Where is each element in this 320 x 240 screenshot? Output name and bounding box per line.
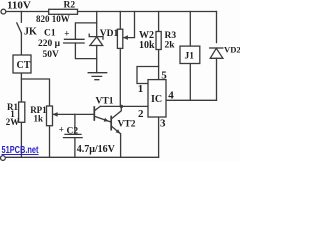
label 2k — [165, 40, 176, 50]
potentiometer W2 body — [117, 29, 122, 48]
terminal top-left — [1, 9, 6, 14]
label 10k — [139, 40, 155, 51]
wire J1 bottom lead — [189, 64, 191, 101]
diode VD2 — [210, 48, 223, 58]
label W2 — [139, 30, 154, 41]
label RP1 — [30, 105, 47, 115]
wire bottom rail — [5, 156, 158, 158]
wire W2 bottom to collector node — [119, 48, 121, 106]
svg-text:2k: 2k — [165, 40, 176, 50]
wire CT to bottom rail through R1 — [20, 73, 22, 157]
label 820 10W — [36, 14, 70, 24]
transistor VT2 emitter — [111, 126, 120, 134]
resistor R3 — [156, 32, 161, 50]
svg-text:50V: 50V — [43, 50, 60, 60]
label 220u — [38, 39, 61, 49]
arrow VT1 emitter — [104, 118, 109, 122]
resistor R1 — [19, 102, 25, 122]
transistor VT2 base bar — [110, 117, 112, 130]
label R2 — [64, 0, 76, 10]
svg-text:VT1: VT1 — [96, 97, 114, 107]
label IC — [151, 94, 162, 105]
label VD1 — [100, 29, 119, 39]
arrow W2 wiper — [123, 35, 128, 40]
zener diode VD1 — [89, 34, 103, 45]
svg-text:2W: 2W — [6, 117, 20, 127]
arrow VT2 emitter — [116, 129, 121, 133]
transistor VT1 base bar — [93, 107, 95, 120]
wire R3 top lead — [158, 12, 160, 32]
wire W2 top lead — [119, 12, 121, 30]
svg-text:820 10W: 820 10W — [36, 14, 70, 24]
label C1 — [44, 29, 56, 39]
wire C1 top lead — [75, 23, 96, 39]
label R1 value 2W — [6, 117, 20, 127]
label R1 — [7, 102, 18, 112]
svg-text:1: 1 — [138, 83, 144, 95]
switch JK blade — [17, 23, 22, 33]
svg-text:VD2: VD2 — [224, 44, 240, 54]
label C1 plus — [64, 28, 69, 38]
wire right drop to VD2 — [216, 12, 218, 43]
label pin 3 — [160, 117, 166, 129]
svg-text:220 μ: 220 μ — [38, 39, 61, 49]
svg-text:3: 3 — [160, 117, 166, 129]
wire pin1 to R3 net — [137, 67, 159, 84]
svg-text:4.7μ/16V: 4.7μ/16V — [77, 144, 116, 155]
wire C2 bottom lead — [74, 138, 76, 158]
label R3 — [165, 31, 177, 41]
label VT2 — [118, 120, 136, 130]
relay coil J1 box — [180, 46, 200, 63]
wire RP1 bottom lead — [49, 126, 51, 158]
svg-text:1k: 1k — [34, 114, 44, 124]
wire VD2 bottom to pin4 net — [216, 58, 218, 100]
current transformer CT box — [13, 55, 31, 73]
label J1 — [185, 52, 195, 62]
wire collector node to IC pin2 — [100, 105, 148, 107]
svg-text:10k: 10k — [139, 40, 155, 51]
label 110V — [7, 0, 31, 12]
wire C1 bottom lead — [75, 43, 96, 59]
capacitor C1 plates — [64, 39, 85, 43]
wire VT2 emitter to bottom rail — [120, 134, 122, 158]
wire left branch stub — [20, 12, 22, 23]
wire R3 bottom to IC pin5 — [158, 50, 160, 80]
svg-text:C1: C1 — [44, 29, 56, 39]
wire VD1 top lead — [96, 12, 98, 37]
label pin 1 — [138, 83, 144, 95]
svg-text:+: + — [59, 125, 64, 135]
wire IC pin3 to bottom rail — [158, 117, 160, 157]
wire W2 wiper to rail — [123, 12, 134, 38]
wire C2 top lead — [74, 114, 76, 134]
svg-text:51PCB.net: 51PCB.net — [2, 145, 39, 156]
wire jog to RP1 top — [21, 79, 49, 106]
svg-text:R2: R2 — [64, 0, 76, 10]
label VT1 — [96, 97, 114, 107]
svg-text:4: 4 — [168, 90, 174, 102]
wire J1 top lead — [189, 12, 191, 47]
label VD2 — [224, 44, 241, 54]
wire pin4 net horizontal — [166, 99, 217, 101]
svg-text:JK: JK — [24, 27, 37, 38]
svg-text:+: + — [64, 28, 69, 38]
wire RP1 wiper to VT1 base — [53, 113, 94, 115]
transistor VT1 collector — [94, 106, 100, 110]
svg-text:CT: CT — [17, 60, 31, 71]
svg-text:110V: 110V — [7, 0, 31, 12]
wire VD1 anode to ground — [96, 46, 98, 73]
resistor R2 — [49, 9, 78, 14]
transistor VT1 emitter — [94, 116, 110, 122]
transistor VT2 collector — [111, 106, 121, 119]
wire switch to CT — [20, 33, 22, 55]
arrow RP1 wiper — [53, 112, 58, 117]
label RP1 value 1k — [34, 114, 44, 124]
label pin 2 — [138, 108, 144, 120]
svg-text:J1: J1 — [185, 52, 195, 62]
wire top rail — [6, 11, 217, 13]
label C2 — [67, 127, 79, 137]
label pin 4 — [168, 90, 174, 102]
label JK — [24, 27, 37, 38]
label 50V — [43, 50, 60, 60]
label CT — [17, 60, 31, 71]
svg-text:VT2: VT2 — [118, 120, 136, 130]
IC U1 box — [148, 80, 166, 117]
terminal bottom-left — [1, 156, 6, 161]
label C2 plus — [59, 125, 64, 135]
label C2 value — [77, 144, 116, 155]
svg-text:2: 2 — [138, 108, 144, 120]
node collector junction — [120, 105, 123, 108]
capacitor C2 plates — [64, 134, 83, 137]
svg-text:IC: IC — [151, 94, 162, 105]
watermark 51PCB.net — [2, 145, 39, 156]
label R1 value 1 — [10, 109, 15, 119]
svg-text:VD1: VD1 — [100, 29, 119, 39]
svg-text:5: 5 — [161, 69, 167, 81]
ground — [88, 73, 107, 80]
potentiometer RP1 body — [47, 106, 53, 126]
label pin 5 — [161, 69, 167, 81]
svg-text:C2: C2 — [67, 127, 79, 137]
